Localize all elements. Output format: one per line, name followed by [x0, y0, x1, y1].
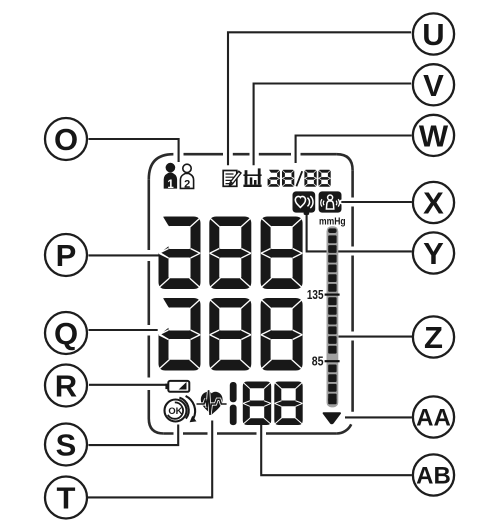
svg-text:85: 85 [312, 354, 324, 369]
leader Q [89, 329, 159, 331]
leader AB [260, 424, 412, 476]
svg-text:Q: Q [54, 316, 78, 351]
callout Z [413, 316, 454, 357]
user-2 icon (outlined person) [180, 164, 193, 188]
leader O [89, 138, 179, 162]
display frame bottom edge [164, 432, 337, 435]
callout U [413, 13, 454, 54]
callout V [413, 64, 454, 105]
date 88/88 [267, 169, 280, 186]
svg-text:AB: AB [416, 463, 451, 490]
OK repeat icon [165, 396, 197, 422]
svg-text:U: U [422, 17, 444, 52]
callout S [45, 424, 87, 466]
display frame top-right corner [337, 154, 353, 170]
callout R [45, 365, 87, 407]
down arrow marker [324, 413, 340, 423]
user-1 icon (filled person) [164, 163, 177, 189]
X leader notch [339, 200, 344, 205]
svg-text:135: 135 [307, 287, 324, 302]
leader P [89, 254, 160, 256]
low battery icon [165, 381, 189, 392]
callout AB [413, 454, 454, 495]
date slash [296, 171, 302, 186]
callout W [413, 115, 454, 156]
diastolic digits a88 [158, 297, 201, 370]
leader T [88, 421, 212, 499]
pulse digit 1 [230, 382, 237, 425]
pulse heart icon [197, 390, 227, 415]
display frame left edge [148, 179, 151, 418]
svg-text:2: 2 [184, 179, 190, 191]
heartbeat indicator box [293, 191, 316, 212]
svg-text:T: T [57, 481, 76, 516]
tick 85 [325, 360, 340, 362]
leader S [89, 425, 179, 447]
svg-text:OK: OK [168, 405, 182, 416]
callout X [413, 182, 454, 223]
bar segments [328, 235, 336, 404]
leader Z [339, 336, 413, 338]
svg-text:mmHg: mmHg [319, 216, 346, 228]
leader W [296, 135, 412, 164]
bar-chart icon [243, 168, 261, 187]
callout T [45, 477, 87, 519]
leader Y [306, 213, 412, 252]
bar tube [327, 226, 339, 407]
display frame bottom-right corner [337, 424, 352, 433]
svg-text:P: P [56, 238, 77, 273]
svg-text:W: W [419, 118, 449, 153]
leader X [343, 201, 412, 203]
callout AA [413, 396, 454, 437]
leader V [254, 83, 412, 166]
svg-text:Y: Y [423, 236, 444, 271]
display frame top-left corner [149, 154, 174, 179]
leader U [228, 31, 411, 165]
svg-text:X: X [423, 186, 444, 221]
svg-text:R: R [55, 369, 77, 404]
svg-text:Z: Z [424, 320, 443, 355]
svg-text:O: O [54, 122, 78, 157]
leader AA [345, 416, 412, 418]
bar cap segment [328, 228, 336, 233]
display frame top edge [184, 153, 337, 156]
display frame bottom-left corner [149, 419, 164, 434]
systolic digits a88 [158, 216, 201, 289]
callout Q [45, 312, 87, 354]
svg-text:1: 1 [167, 179, 174, 191]
body-movement indicator box [319, 191, 342, 212]
callout Y [413, 232, 454, 273]
svg-text:S: S [56, 428, 77, 463]
leader R [89, 384, 167, 386]
callout P [45, 234, 87, 276]
tick 135 [325, 294, 340, 296]
memo/pen icon [223, 170, 242, 188]
display frame right edge [351, 170, 354, 412]
svg-text:V: V [423, 68, 444, 103]
callout O [45, 118, 87, 160]
svg-text:AA: AA [416, 405, 451, 432]
Y leader tab [304, 212, 310, 215]
